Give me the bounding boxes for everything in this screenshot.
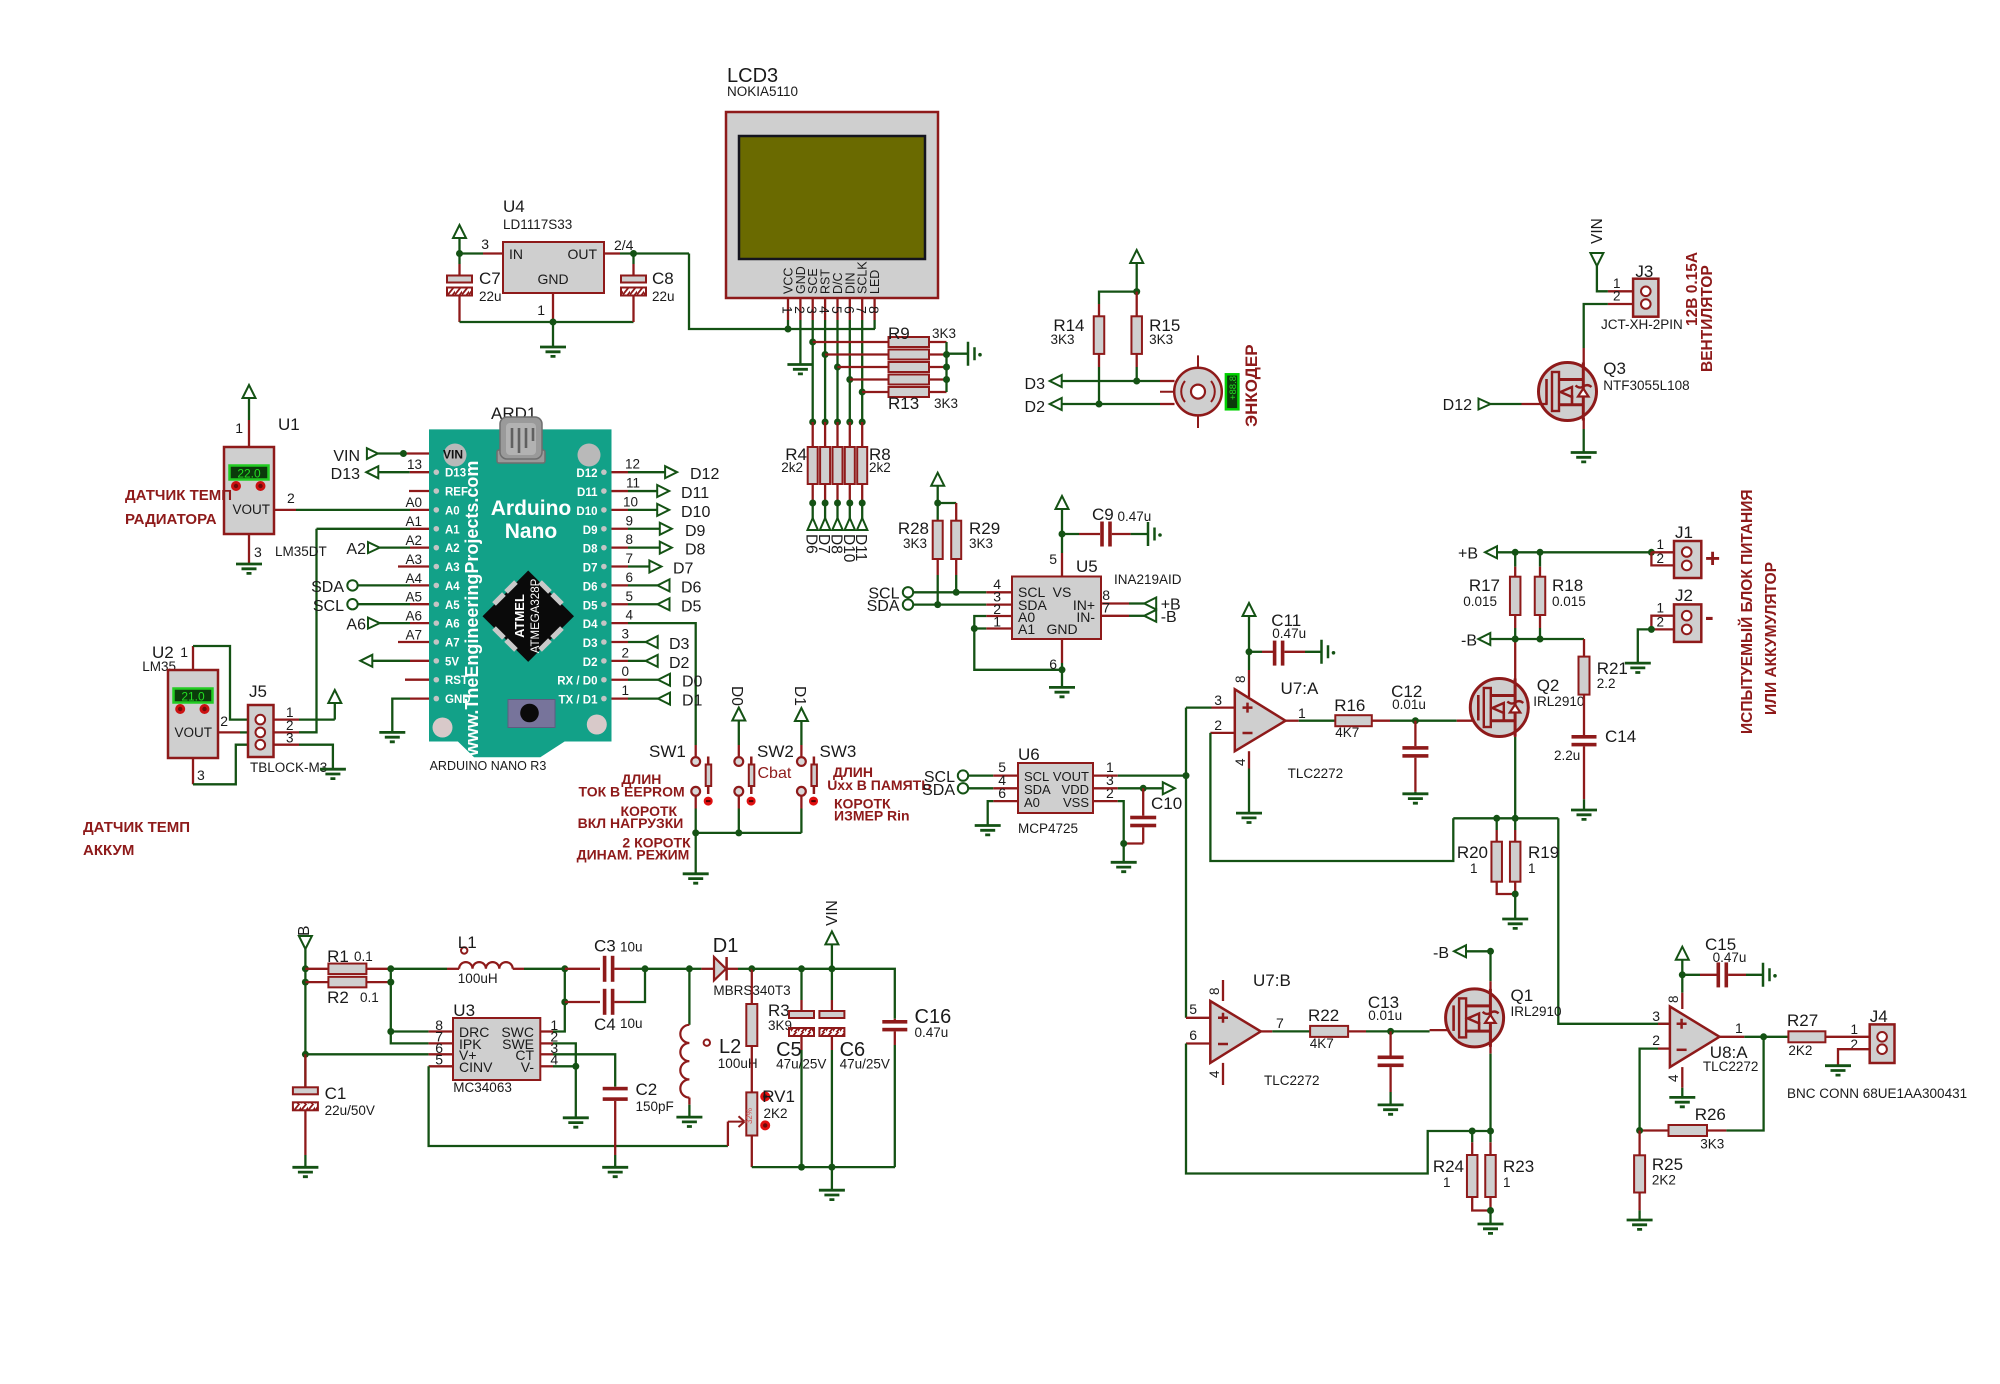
wire SDA to U5 bbox=[913, 603, 986, 605]
svg-text:R24: R24 bbox=[1433, 1157, 1464, 1176]
wire U5 VS pin5 bbox=[1061, 553, 1063, 577]
svg-text:2: 2 bbox=[1214, 717, 1222, 733]
svg-text:R27: R27 bbox=[1787, 1011, 1818, 1030]
ground C2 bbox=[602, 1167, 628, 1176]
ground C12 bbox=[1402, 794, 1428, 803]
temp sensor U1 LM35DT bbox=[224, 447, 274, 534]
ground U3 bbox=[563, 1118, 589, 1127]
node C13 junction bbox=[1387, 1028, 1394, 1035]
svg-text:C9: C9 bbox=[1092, 505, 1114, 524]
wires SW bottoms to common bbox=[695, 796, 697, 808]
svg-text:OUT: OUT bbox=[567, 246, 597, 262]
ground C13 bbox=[1378, 1105, 1404, 1114]
power flag U5 VS bbox=[1056, 496, 1069, 509]
power flag encoder bbox=[1130, 250, 1143, 263]
resistor R26 3K3 bbox=[1640, 1129, 1669, 1131]
svg-text:0.015: 0.015 bbox=[1463, 594, 1497, 609]
svg-text:0.47u: 0.47u bbox=[915, 1025, 949, 1040]
wire row to L2/D1 bbox=[645, 968, 689, 970]
svg-text:VIN: VIN bbox=[824, 900, 841, 926]
svg-text:R23: R23 bbox=[1503, 1157, 1534, 1176]
ground bottom row bbox=[831, 1167, 833, 1190]
svg-text:4K7: 4K7 bbox=[1335, 725, 1359, 740]
svg-text:8: 8 bbox=[1666, 995, 1681, 1003]
svg-text:2: 2 bbox=[621, 645, 629, 660]
svg-text:D4: D4 bbox=[583, 619, 598, 631]
svg-text:32%: 32% bbox=[745, 1108, 754, 1124]
wire R18 bottom to -B rail bbox=[1539, 615, 1541, 628]
wire A1 to J5 pin2 bbox=[410, 528, 429, 530]
resistor R2 0.1 bbox=[305, 981, 328, 983]
svg-text:D8: D8 bbox=[685, 542, 706, 559]
svg-text:R18: R18 bbox=[1552, 576, 1583, 595]
svg-text:ARDUINO NANO R3: ARDUINO NANO R3 bbox=[430, 759, 547, 773]
capacitor C16 0.47u bbox=[832, 969, 895, 1019]
svg-text:10u: 10u bbox=[620, 940, 643, 955]
capacitor C1 22u/50V bbox=[304, 1054, 306, 1087]
wire U7:B pin6 feedback bbox=[1186, 1042, 1210, 1044]
svg-text:12: 12 bbox=[625, 457, 640, 472]
svg-text:2K2: 2K2 bbox=[1788, 1043, 1812, 1058]
svg-text:D6: D6 bbox=[681, 579, 702, 596]
wire Q3 source gnd bbox=[1583, 418, 1585, 429]
svg-text:J2: J2 bbox=[1675, 586, 1693, 605]
svg-text:Nano: Nano bbox=[505, 520, 558, 543]
terminal D9 bbox=[612, 528, 629, 530]
power flag U1 bbox=[243, 385, 256, 398]
svg-text:D1: D1 bbox=[682, 693, 703, 710]
svg-text:BNC CONN 68UE1AA300431: BNC CONN 68UE1AA300431 bbox=[1787, 1086, 1967, 1101]
capacitor C4 10u bbox=[565, 1001, 600, 1003]
svg-text:J1: J1 bbox=[1675, 523, 1693, 542]
svg-text:D0: D0 bbox=[682, 674, 703, 691]
Arduino bottom chip bbox=[508, 700, 555, 728]
svg-text:VOUT: VOUT bbox=[232, 502, 270, 517]
transistor Q2 IRL2910 bbox=[1470, 679, 1528, 737]
wire R14 bottom to D2 row bbox=[1098, 354, 1100, 367]
svg-text:10: 10 bbox=[623, 494, 638, 509]
svg-text:C3: C3 bbox=[594, 937, 616, 956]
svg-text:VIN: VIN bbox=[1589, 218, 1606, 244]
wire -B to Q1 drain bbox=[1489, 951, 1491, 981]
capacitor C6 47u/25V bbox=[802, 968, 832, 970]
svg-text:CINV: CINV bbox=[459, 1059, 493, 1075]
svg-text:A2: A2 bbox=[346, 541, 366, 558]
capacitor C9 0.47u bbox=[1062, 533, 1079, 535]
svg-text:0.47u: 0.47u bbox=[1272, 626, 1306, 641]
svg-text:NTF3055L108: NTF3055L108 bbox=[1603, 378, 1689, 393]
node R1/R2 right bbox=[387, 965, 394, 972]
Arduino Nano ARD1 board bbox=[429, 429, 612, 757]
svg-text:R13: R13 bbox=[888, 394, 919, 413]
wire Q1 source bbox=[1489, 1031, 1491, 1054]
svg-text:-: - bbox=[1705, 601, 1714, 631]
svg-text:2: 2 bbox=[1656, 551, 1664, 566]
terminal D6 bbox=[612, 584, 629, 586]
svg-text:L1: L1 bbox=[458, 933, 477, 952]
wire U3 SWE bbox=[540, 1042, 553, 1044]
svg-text:D10: D10 bbox=[576, 506, 597, 518]
svg-text:4K7: 4K7 bbox=[1310, 1036, 1334, 1051]
resistor R7 bbox=[845, 447, 855, 484]
svg-text:6: 6 bbox=[625, 570, 633, 585]
svg-text:C8: C8 bbox=[652, 269, 674, 288]
svg-text:7: 7 bbox=[1102, 600, 1110, 616]
svg-text:0.1: 0.1 bbox=[354, 949, 373, 964]
wire gate Q2 bbox=[1457, 720, 1479, 722]
svg-text:C4: C4 bbox=[594, 1015, 616, 1034]
svg-text:ВЕНТИЛЯТОР: ВЕНТИЛЯТОР bbox=[1699, 265, 1716, 372]
svg-text:8: 8 bbox=[866, 306, 882, 314]
transistor Q1 IRL2910 bbox=[1430, 1029, 1455, 1031]
svg-text:3: 3 bbox=[1214, 692, 1222, 708]
svg-text:ИЗМЕР Rin: ИЗМЕР Rin bbox=[834, 808, 910, 824]
svg-text:J5: J5 bbox=[249, 682, 267, 701]
svg-text:A3: A3 bbox=[445, 562, 460, 574]
wire J5 pin3 gnd bbox=[299, 745, 333, 770]
svg-text:MC34063: MC34063 bbox=[453, 1080, 512, 1095]
svg-text:TX / D1: TX / D1 bbox=[559, 695, 599, 707]
node C11 junction bbox=[1246, 648, 1253, 655]
node U6 VOUT junction bbox=[1183, 772, 1190, 779]
wire RST stub bbox=[405, 679, 429, 681]
node C15 junction bbox=[1679, 971, 1686, 978]
svg-text:3: 3 bbox=[481, 236, 489, 252]
svg-text:A5: A5 bbox=[405, 590, 422, 605]
wire U3 V- bbox=[540, 1065, 553, 1067]
wire R15 bottom to D3 row bbox=[1136, 354, 1138, 367]
wire A3 stub bbox=[398, 565, 429, 567]
svg-text:REF: REF bbox=[445, 487, 468, 499]
capacitor C2 150pF bbox=[603, 1087, 628, 1091]
wire U3 CINV feedback bbox=[429, 1065, 453, 1067]
svg-text:TBLOCK-M3: TBLOCK-M3 bbox=[250, 760, 327, 775]
svg-text:6: 6 bbox=[1189, 1027, 1197, 1043]
terminal D2 bbox=[612, 660, 629, 662]
LCD pin stubs bbox=[787, 298, 789, 320]
resistor R6 bbox=[833, 447, 843, 484]
op-amp U8:A TLC2272 bbox=[1681, 993, 1683, 1009]
svg-text:8: 8 bbox=[1233, 675, 1248, 683]
wire DAC bus vertical bbox=[1185, 708, 1187, 1018]
svg-text:SDA: SDA bbox=[922, 782, 955, 799]
svg-text:3: 3 bbox=[197, 767, 205, 783]
svg-text:D11: D11 bbox=[577, 487, 598, 499]
resistor R10 bbox=[889, 350, 930, 360]
svg-text:2: 2 bbox=[1656, 615, 1664, 630]
svg-text:2k2: 2k2 bbox=[781, 460, 803, 475]
svg-text:3K3: 3K3 bbox=[1050, 332, 1074, 347]
wire R29 to SCL bbox=[955, 559, 957, 575]
wire SCL to U5 bbox=[913, 591, 986, 593]
svg-text:U4: U4 bbox=[503, 197, 525, 216]
svg-text:D1: D1 bbox=[791, 686, 808, 706]
svg-text:IN-: IN- bbox=[1076, 609, 1095, 625]
svg-text:A0: A0 bbox=[405, 495, 422, 510]
svg-text:-B: -B bbox=[1461, 632, 1477, 649]
svg-text:21.0: 21.0 bbox=[181, 690, 205, 704]
svg-text:A5: A5 bbox=[445, 600, 460, 612]
wire sense to U8 bbox=[1558, 818, 1670, 1024]
ATMEL ATMEGA328P chip bbox=[483, 571, 575, 662]
svg-text:D5: D5 bbox=[583, 600, 598, 612]
svg-text:R2: R2 bbox=[327, 988, 349, 1007]
svg-text:V-: V- bbox=[521, 1059, 535, 1075]
node U5 VS / C9 junction bbox=[1059, 531, 1066, 538]
resistor R1 0.1 bbox=[305, 968, 328, 970]
svg-text:RV1: RV1 bbox=[762, 1087, 795, 1106]
svg-text:VOUT: VOUT bbox=[174, 725, 212, 740]
wire SW common row bbox=[696, 832, 802, 834]
resistor R16 4K7 bbox=[1335, 715, 1372, 726]
resistor R22 4K7 bbox=[1310, 1026, 1348, 1037]
svg-text:8: 8 bbox=[625, 532, 633, 547]
wire U4 IN to junction bbox=[460, 252, 484, 254]
wires LCD SCE/RST/DC/DIN/SCLK down bbox=[812, 320, 814, 422]
svg-text:D11: D11 bbox=[681, 485, 709, 502]
terminal D0 bbox=[612, 679, 629, 681]
svg-text:VIN: VIN bbox=[333, 448, 360, 465]
svg-text:R17: R17 bbox=[1469, 576, 1500, 595]
wire U2 pin3 bbox=[192, 758, 194, 784]
svg-text:3K3: 3K3 bbox=[903, 536, 927, 551]
svg-text:TLC2272: TLC2272 bbox=[1264, 1073, 1320, 1088]
wire U4 OUT bbox=[604, 252, 620, 254]
wire U7:A out bbox=[1286, 720, 1299, 722]
svg-text:0.015: 0.015 bbox=[1552, 594, 1586, 609]
wire Q2 source row bbox=[1453, 817, 1558, 819]
capacitor C13 0.01u bbox=[1389, 1031, 1391, 1055]
svg-text:SW1: SW1 bbox=[649, 742, 686, 761]
svg-text:9: 9 bbox=[625, 513, 633, 528]
svg-text:D12: D12 bbox=[576, 468, 597, 480]
svg-text:A4: A4 bbox=[445, 581, 460, 593]
resistor R24 1 bbox=[1471, 1131, 1473, 1142]
svg-text:U7:B: U7:B bbox=[1253, 971, 1291, 990]
svg-text:2: 2 bbox=[1613, 289, 1621, 304]
ground LCD bbox=[787, 365, 813, 374]
svg-text:GND: GND bbox=[445, 694, 471, 706]
svg-text:A1: A1 bbox=[445, 524, 460, 536]
ground U6 VSS bbox=[1111, 862, 1137, 871]
encoder display bbox=[1226, 374, 1239, 409]
wire U8 pin4 gnd bbox=[1681, 1067, 1683, 1088]
inductor L1 100uH bbox=[391, 968, 447, 970]
svg-text:LD1117S33: LD1117S33 bbox=[503, 217, 572, 232]
wire C7-GND-C8 bottom bbox=[460, 321, 634, 323]
svg-text:4: 4 bbox=[1207, 1070, 1222, 1078]
svg-text:ИЛИ АККУМУЛЯТОР: ИЛИ АККУМУЛЯТОР bbox=[1763, 562, 1780, 715]
svg-text:47u/25V: 47u/25V bbox=[840, 1057, 890, 1072]
svg-text:SDA: SDA bbox=[867, 598, 900, 615]
LCD3 NOKIA5110 display bbox=[726, 112, 938, 298]
power flag R28/R29 bbox=[931, 473, 944, 486]
svg-text:D3: D3 bbox=[583, 638, 598, 650]
svg-text:3K3: 3K3 bbox=[932, 326, 956, 341]
wire LCD pin8 LED down bbox=[873, 320, 875, 329]
svg-text:22u/50V: 22u/50V bbox=[325, 1103, 375, 1118]
svg-text:1: 1 bbox=[235, 420, 243, 436]
svg-text:R1: R1 bbox=[327, 947, 349, 966]
svg-text:2K2: 2K2 bbox=[1652, 1173, 1676, 1188]
svg-text:D2: D2 bbox=[1025, 399, 1046, 416]
svg-text:VSS: VSS bbox=[1063, 795, 1089, 810]
wire A7 stub bbox=[398, 641, 429, 643]
svg-text:3K3: 3K3 bbox=[1700, 1137, 1724, 1152]
capacitor C15 0.47u bbox=[1682, 974, 1700, 976]
capacitor C7 bbox=[458, 254, 460, 265]
wire A0 to U1 VOUT bbox=[274, 509, 296, 511]
wire U8 pin2 bbox=[1658, 1047, 1670, 1049]
svg-text:IN: IN bbox=[509, 246, 523, 262]
svg-text:ДАТЧИК ТЕМП: ДАТЧИК ТЕМП bbox=[83, 819, 190, 836]
terminal D12 bbox=[612, 471, 629, 473]
wire U7:A pin2 feedback bbox=[1210, 732, 1234, 734]
svg-text:D12: D12 bbox=[690, 466, 719, 483]
resistor R9 bbox=[889, 337, 930, 347]
wire U4 GND down bbox=[552, 293, 554, 322]
svg-text:SCL: SCL bbox=[313, 598, 344, 615]
capacitor C5 47u/25V bbox=[752, 968, 802, 970]
ground U5 bbox=[1049, 687, 1075, 696]
terminal VDD output bbox=[1163, 782, 1175, 794]
svg-text:A6: A6 bbox=[405, 609, 422, 624]
svg-text:A2: A2 bbox=[405, 533, 422, 548]
terminal D5 bbox=[612, 603, 629, 605]
wire U6 A0 gnd bbox=[993, 800, 1018, 802]
wire Q2 source bbox=[1514, 721, 1516, 737]
svg-text:1: 1 bbox=[993, 614, 1001, 630]
svg-text:IRL2910: IRL2910 bbox=[1533, 694, 1584, 709]
svg-text:A3: A3 bbox=[405, 552, 422, 567]
terminal D11 bbox=[612, 490, 629, 492]
svg-text:1: 1 bbox=[1656, 601, 1664, 616]
wire 3.3V to LCD VCC bbox=[689, 254, 875, 330]
svg-text:ДАТЧИК ТЕМП: ДАТЧИК ТЕМП bbox=[125, 487, 232, 504]
resistor R27 2K2 bbox=[1788, 1031, 1825, 1042]
wire J4 pin2 gnd bbox=[1838, 1049, 1870, 1066]
svg-text:4: 4 bbox=[625, 608, 633, 623]
svg-text:Q2: Q2 bbox=[1537, 676, 1560, 695]
wire U8 out pin1 bbox=[1720, 1036, 1745, 1038]
Arduino mounting holes bbox=[444, 444, 467, 467]
switch red indicators bbox=[704, 797, 713, 806]
resistor R20 1 bbox=[1496, 818, 1498, 830]
ground U1 bbox=[236, 564, 262, 573]
svg-text:1: 1 bbox=[1443, 1175, 1451, 1190]
svg-text:1: 1 bbox=[1503, 1175, 1511, 1190]
svg-text:0: 0 bbox=[621, 664, 629, 679]
resistor R8 bbox=[857, 447, 867, 484]
svg-text:ДИНАМ. РЕЖИМ: ДИНАМ. РЕЖИМ bbox=[577, 847, 690, 863]
svg-text:D9: D9 bbox=[583, 525, 598, 537]
wire U1 pin1 bbox=[248, 420, 250, 447]
svg-text:5: 5 bbox=[1049, 551, 1057, 567]
svg-text:47u/25V: 47u/25V bbox=[776, 1057, 826, 1072]
svg-text:A1: A1 bbox=[405, 514, 422, 529]
resistor R14 3K3 bbox=[1094, 316, 1105, 354]
svg-text:A0: A0 bbox=[1024, 795, 1040, 810]
svg-text:SW2: SW2 bbox=[757, 742, 794, 761]
ground R25 bbox=[1627, 1220, 1653, 1229]
svg-text:A7: A7 bbox=[405, 628, 422, 643]
ground R24/R23 bbox=[1478, 1224, 1504, 1233]
wire REF stub bbox=[409, 490, 429, 492]
svg-text:2/4: 2/4 bbox=[614, 237, 634, 253]
resistor R15 3K3 bbox=[1136, 292, 1138, 317]
svg-text:0.01u: 0.01u bbox=[1368, 1008, 1402, 1023]
capacitor C11 0.47u bbox=[1249, 651, 1262, 653]
svg-text:3: 3 bbox=[621, 627, 629, 642]
U5 pin stubs left bbox=[986, 615, 1012, 617]
wire U8 pin3 bbox=[1658, 1023, 1670, 1025]
ground L2 bbox=[676, 1117, 702, 1126]
svg-text:D7: D7 bbox=[583, 563, 598, 575]
svg-text:Cbat: Cbat bbox=[758, 765, 792, 782]
terminal D3 bbox=[612, 641, 629, 643]
svg-text:8: 8 bbox=[1207, 987, 1222, 995]
svg-text:5: 5 bbox=[1189, 1001, 1197, 1017]
svg-text:D3: D3 bbox=[669, 636, 690, 653]
wire Q1 source row bbox=[1453, 1130, 1491, 1132]
svg-text:R22: R22 bbox=[1308, 1006, 1339, 1025]
svg-text:ATMEL: ATMEL bbox=[512, 594, 527, 638]
svg-text:INA219AID: INA219AID bbox=[1114, 572, 1182, 587]
svg-text:R16: R16 bbox=[1334, 696, 1365, 715]
wire U6 VOUT to bus bbox=[1093, 774, 1118, 776]
wire U1 pin3 gnd bbox=[248, 534, 250, 564]
resistor R28 3K3 bbox=[933, 521, 943, 559]
capacitor C10 bbox=[1142, 788, 1144, 815]
svg-text:LM35DT: LM35DT bbox=[275, 544, 327, 559]
svg-text:13: 13 bbox=[407, 457, 422, 472]
svg-text:2K2: 2K2 bbox=[764, 1106, 788, 1121]
svg-text:Q3: Q3 bbox=[1603, 359, 1626, 378]
svg-text:SW3: SW3 bbox=[820, 742, 857, 761]
power flag J5 pin1 bbox=[299, 718, 335, 720]
svg-text:U5: U5 bbox=[1076, 557, 1098, 576]
svg-text:R19: R19 bbox=[1528, 843, 1559, 862]
svg-text:A7: A7 bbox=[445, 638, 460, 650]
svg-text:D0: D0 bbox=[728, 686, 745, 706]
svg-text:MCP4725: MCP4725 bbox=[1018, 821, 1078, 836]
wire J3 pin2 to Q3 bbox=[1608, 303, 1633, 305]
wire U2 pin1 to J5 pin1 bbox=[192, 646, 194, 670]
svg-text:4: 4 bbox=[1666, 1074, 1681, 1082]
svg-text:C2: C2 bbox=[636, 1080, 658, 1099]
wire RV1 wiper from CINV bbox=[727, 1122, 729, 1146]
wire -B rail bbox=[1490, 638, 1584, 640]
svg-text:C1: C1 bbox=[325, 1084, 347, 1103]
svg-text:АККУМ: АККУМ bbox=[83, 842, 134, 859]
inductor L2 100uH bbox=[688, 969, 690, 1025]
svg-text:TLC2272: TLC2272 bbox=[1703, 1059, 1759, 1074]
switch SW3 bbox=[797, 757, 806, 766]
svg-text:2.2u: 2.2u bbox=[1554, 748, 1580, 763]
resistor R23 1 bbox=[1489, 1131, 1491, 1142]
svg-text:J4: J4 bbox=[1870, 1007, 1888, 1026]
wire U5 A0/A1 tie bbox=[974, 616, 1062, 670]
svg-text:www.TheEngineeringProjects.com: www.TheEngineeringProjects.com bbox=[462, 461, 482, 757]
svg-text:10u: 10u bbox=[620, 1016, 643, 1031]
svg-text:2.2: 2.2 bbox=[1597, 676, 1616, 691]
svg-text:12В 0.15А: 12В 0.15А bbox=[1684, 252, 1701, 326]
rotary encoder bbox=[1174, 368, 1222, 416]
svg-text:3: 3 bbox=[286, 731, 294, 746]
node VIN junction bbox=[400, 450, 407, 457]
power flag U4 input bbox=[453, 225, 466, 238]
power flag U8 pin8 bbox=[1676, 947, 1689, 960]
